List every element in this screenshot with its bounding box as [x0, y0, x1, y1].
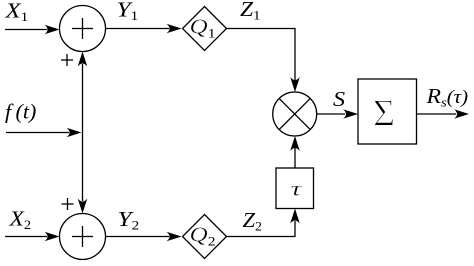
wire Q1 to multiplier: [227, 29, 296, 81]
arrowhead f(t) into branch: [67, 128, 82, 138]
arrowhead Z2 up into tau box: [290, 209, 300, 224]
arrowhead into Q1: [167, 24, 182, 34]
adder U2 (bottom summing junction): [60, 214, 106, 260]
arrowhead branch up into adder1: [78, 52, 88, 67]
svg-text:f (t): f (t): [5, 100, 36, 123]
wire f(t) vertical branch: [82, 64, 84, 201]
quantizer Q2 (diamond): [183, 215, 227, 259]
plus sign at adder U1 lower input: [61, 54, 73, 66]
arrowhead X1 into adder1: [45, 25, 60, 35]
adder U1 (top summing junction): [60, 6, 106, 52]
wire adder1 to Q1: [106, 28, 170, 30]
wire sigma box output: [417, 113, 457, 115]
svg-text:Rs(τ): Rs(τ): [425, 84, 468, 110]
delay box (tau): [276, 168, 314, 209]
plus sign at adder U2 upper input: [62, 198, 74, 210]
quantizer Q1 (diamond): [183, 7, 227, 51]
multiplier (circle with X): [273, 92, 317, 136]
wire X2 input: [5, 236, 47, 238]
arrowhead output Rs: [454, 109, 469, 119]
integrator box U3 (sigma): [358, 79, 417, 144]
wire f(t) input: [6, 132, 69, 134]
wire multiplier to sigma box: [317, 113, 345, 115]
svg-text:S: S: [333, 87, 345, 110]
wire adder2 to Q2: [106, 236, 170, 238]
arrowhead X2 into adder2: [45, 232, 60, 242]
arrowhead branch down into adder2: [78, 199, 88, 214]
wire X1 input: [5, 29, 47, 31]
arrowhead tau up into multiplier bottom: [290, 136, 300, 151]
svg-text:Σ: Σ: [373, 93, 395, 135]
arrowhead S into sigma box: [343, 109, 358, 119]
svg-text:τ: τ: [291, 177, 303, 200]
wire tau box to multiplier: [294, 148, 296, 168]
arrowhead into Q2: [167, 232, 182, 242]
arrowhead Z1 into multiplier top: [290, 77, 300, 92]
wire Q2 to tau box: [227, 221, 296, 237]
